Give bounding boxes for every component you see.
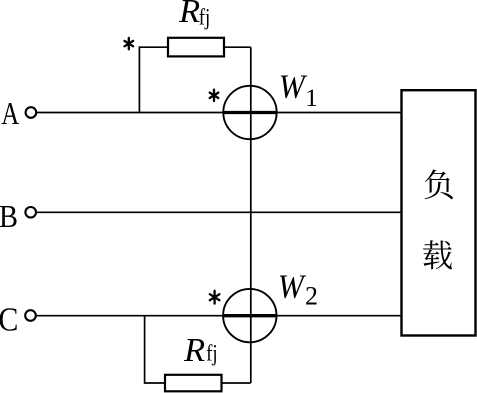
svg-text:R: R bbox=[178, 0, 200, 30]
svg-text:1: 1 bbox=[305, 85, 318, 112]
svg-text:A: A bbox=[1, 95, 19, 131]
svg-text:fj: fj bbox=[206, 341, 218, 366]
svg-text:fj: fj bbox=[199, 5, 211, 30]
svg-text:B: B bbox=[0, 198, 18, 234]
svg-text:W: W bbox=[279, 68, 307, 105]
svg-text:R: R bbox=[183, 332, 205, 369]
svg-text:2: 2 bbox=[305, 281, 318, 310]
svg-text:C: C bbox=[0, 302, 18, 339]
svg-text:W: W bbox=[278, 268, 306, 305]
